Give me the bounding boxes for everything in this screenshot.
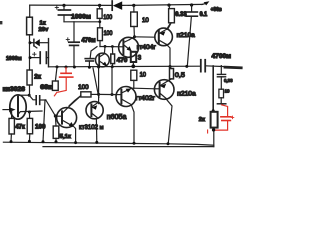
resistor R13 100 collector [69,92,98,106]
transistor U6 T_b [86,102,103,143]
node dot base n210 [133,35,136,38]
resistor R2 2k [27,70,32,85]
svg-text:100: 100 [104,31,113,37]
diode D1 on top rail [112,1,122,10]
resistor R16 10 zobel [217,89,225,104]
capacitor C4 0.1 [186,5,197,67]
wire Tb top [98,67,100,104]
svg-text:0.1: 0.1 [200,12,208,18]
svg-text:10: 10 [225,89,230,94]
wire bottom ground 2 [43,146,214,148]
svg-text:100: 100 [78,85,89,91]
svg-text:1000м: 1000м [6,56,22,62]
red tick return [207,130,209,133]
svg-text:п210а: п210а [177,32,196,39]
svg-text:2к: 2к [34,73,42,80]
wire left vertical [29,35,31,95]
svg-text:470м: 470м [82,38,97,44]
resistor R3 100 top [97,5,102,27]
resistor R14 10 driver [131,70,137,88]
connector arrow +30v [202,1,209,5]
transistor U3 T_d [96,46,110,67]
node base dot [54,114,57,117]
svg-text:470: 470 [117,57,128,64]
wire feedback diagonal [93,68,99,97]
wire 2k down [28,94,30,96]
node mid rail dots [56,64,189,68]
resistor R12 100 source [27,112,32,141]
svg-text:0.33: 0.33 [175,12,187,18]
capacitor C9 0,33 zobel [217,66,225,90]
svg-text:100: 100 [103,15,112,21]
node top rail dots [62,3,193,7]
wire filter mid [64,21,100,23]
svg-text:47к: 47к [15,125,25,131]
svg-text:10: 10 [142,17,149,24]
resistor R8 3 emitter [131,52,136,67]
wire output down [212,66,214,111]
transistor U1 гт404г [119,37,139,58]
transistor U8 п210а bottom [154,79,174,144]
svg-text:5,1к: 5,1к [60,134,71,140]
resistor R11 47k [9,110,14,142]
node dot [28,94,31,97]
svg-text:1000м: 1000м [71,14,91,21]
resistor R17 2k [211,112,218,147]
transistor U2 п210а top [155,24,173,66]
transistor U5 кп302б jfet [3,95,42,119]
resistor R9 68k [52,67,58,91]
capacitor C6 red [54,68,72,96]
svg-text:100: 100 [35,124,46,131]
svg-text:1к: 1к [40,20,46,26]
capacitor C5 base T_d [85,47,97,68]
svg-text:гт402г: гт402г [136,95,156,102]
wire drain top [18,94,29,96]
wire top rail +30v [30,4,203,5]
resistor R4 100 second [98,28,103,47]
wire driver base rail [100,46,123,48]
node dots y94 rail [97,93,113,96]
svg-text:0,5: 0,5 [175,72,185,79]
resistor R6 0.33 [168,5,174,29]
wire base p210 top [135,36,156,38]
node source dot [28,111,31,114]
node dot speaker return [212,128,215,131]
node dots driver rail [104,45,114,48]
node dot output [212,109,215,112]
node dot between R3 R4 [98,20,101,23]
capacitor C3 470м [66,22,79,67]
node zener dot [29,41,32,44]
svg-text:20v: 20v [39,27,49,33]
svg-text:10: 10 [140,72,147,78]
resistor R7 470 [111,47,115,67]
node ground dots [10,140,170,145]
resistor R15 0,5 [170,67,174,79]
resistor R1 1k [27,5,33,35]
svg-text:кп3026: кп3026 [3,86,26,93]
capacitor C2 1000м left [30,52,49,63]
speaker red branch [215,105,234,130]
svg-text:0,33: 0,33 [224,78,233,83]
capacitor C7 jfet out [29,95,46,104]
transistor U4 кт3102 T_a [55,96,80,143]
svg-text:кт3102: кт3102 [79,124,98,131]
capacitor C8 4700м [201,60,205,72]
resistor R10 5,1k [53,116,59,142]
wire mid rail [49,66,242,68]
svg-text:4700м: 4700м [212,53,232,60]
wire bias vertical [48,39,50,67]
svg-text:п605а: п605а [107,114,127,121]
svg-text:+30в: +30в [211,7,223,13]
svg-text:гт404г: гт404г [137,44,157,51]
wire out base rail [134,87,155,90]
wire source bias [43,100,55,142]
zener diode VD2 [30,39,49,48]
resistor R5 10 top [131,5,138,36]
transistor U7 п605а [116,87,136,144]
wire Tc base [99,67,117,95]
svg-text:3: 3 [138,55,142,62]
mark top left edge [0,21,2,24]
svg-text:п210а: п210а [177,91,196,98]
wire bottom ground 1 [3,142,213,145]
svg-text:м: м [100,125,104,131]
node cap dot [29,56,32,59]
svg-text:2к: 2к [199,117,205,123]
capacitor C1 1000м top [55,5,70,21]
svg-text:68к: 68к [40,85,52,91]
